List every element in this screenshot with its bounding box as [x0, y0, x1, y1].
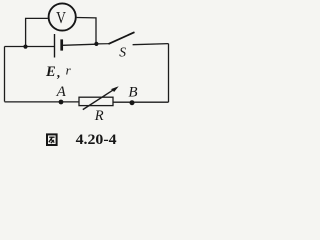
wire left border	[4, 47, 6, 102]
switch node dot	[94, 42, 98, 46]
battery E long plate (+)	[54, 34, 56, 58]
svg-text:V: V	[56, 8, 66, 27]
svg-text:R: R	[94, 108, 104, 124]
rheostat arrowhead	[111, 86, 119, 92]
wire switch to right border	[133, 44, 169, 45]
svg-text:S: S	[119, 45, 126, 60]
svg-text:,: ,	[57, 65, 60, 80]
wire voltmeter branch left: up and over	[26, 18, 48, 46]
wire voltmeter right: over and down	[77, 18, 96, 44]
svg-text:4.20-4: 4.20-4	[76, 132, 118, 148]
switch S stub	[96, 43, 110, 45]
rheostat arrow shaft	[83, 88, 117, 110]
wire battery to switch node	[63, 44, 96, 45]
node B dot	[130, 100, 135, 105]
rheostat R box	[79, 97, 113, 105]
wire bottom left segment	[5, 101, 80, 103]
junction node dot (voltmeter tap, left)	[23, 45, 27, 49]
caption hanzi TU (figure) drawn glyph	[47, 134, 57, 145]
wire bottom right segment	[113, 101, 169, 103]
svg-text:B: B	[128, 85, 137, 101]
wire top-left to battery	[5, 46, 55, 48]
node A dot	[59, 100, 64, 105]
svg-text:E: E	[45, 64, 56, 80]
voltmeter U1 circle	[49, 3, 76, 30]
switch S blade	[109, 32, 135, 44]
wire right border	[168, 44, 170, 103]
battery E short thick plate (-)	[60, 39, 63, 50]
svg-text:A: A	[56, 84, 67, 100]
